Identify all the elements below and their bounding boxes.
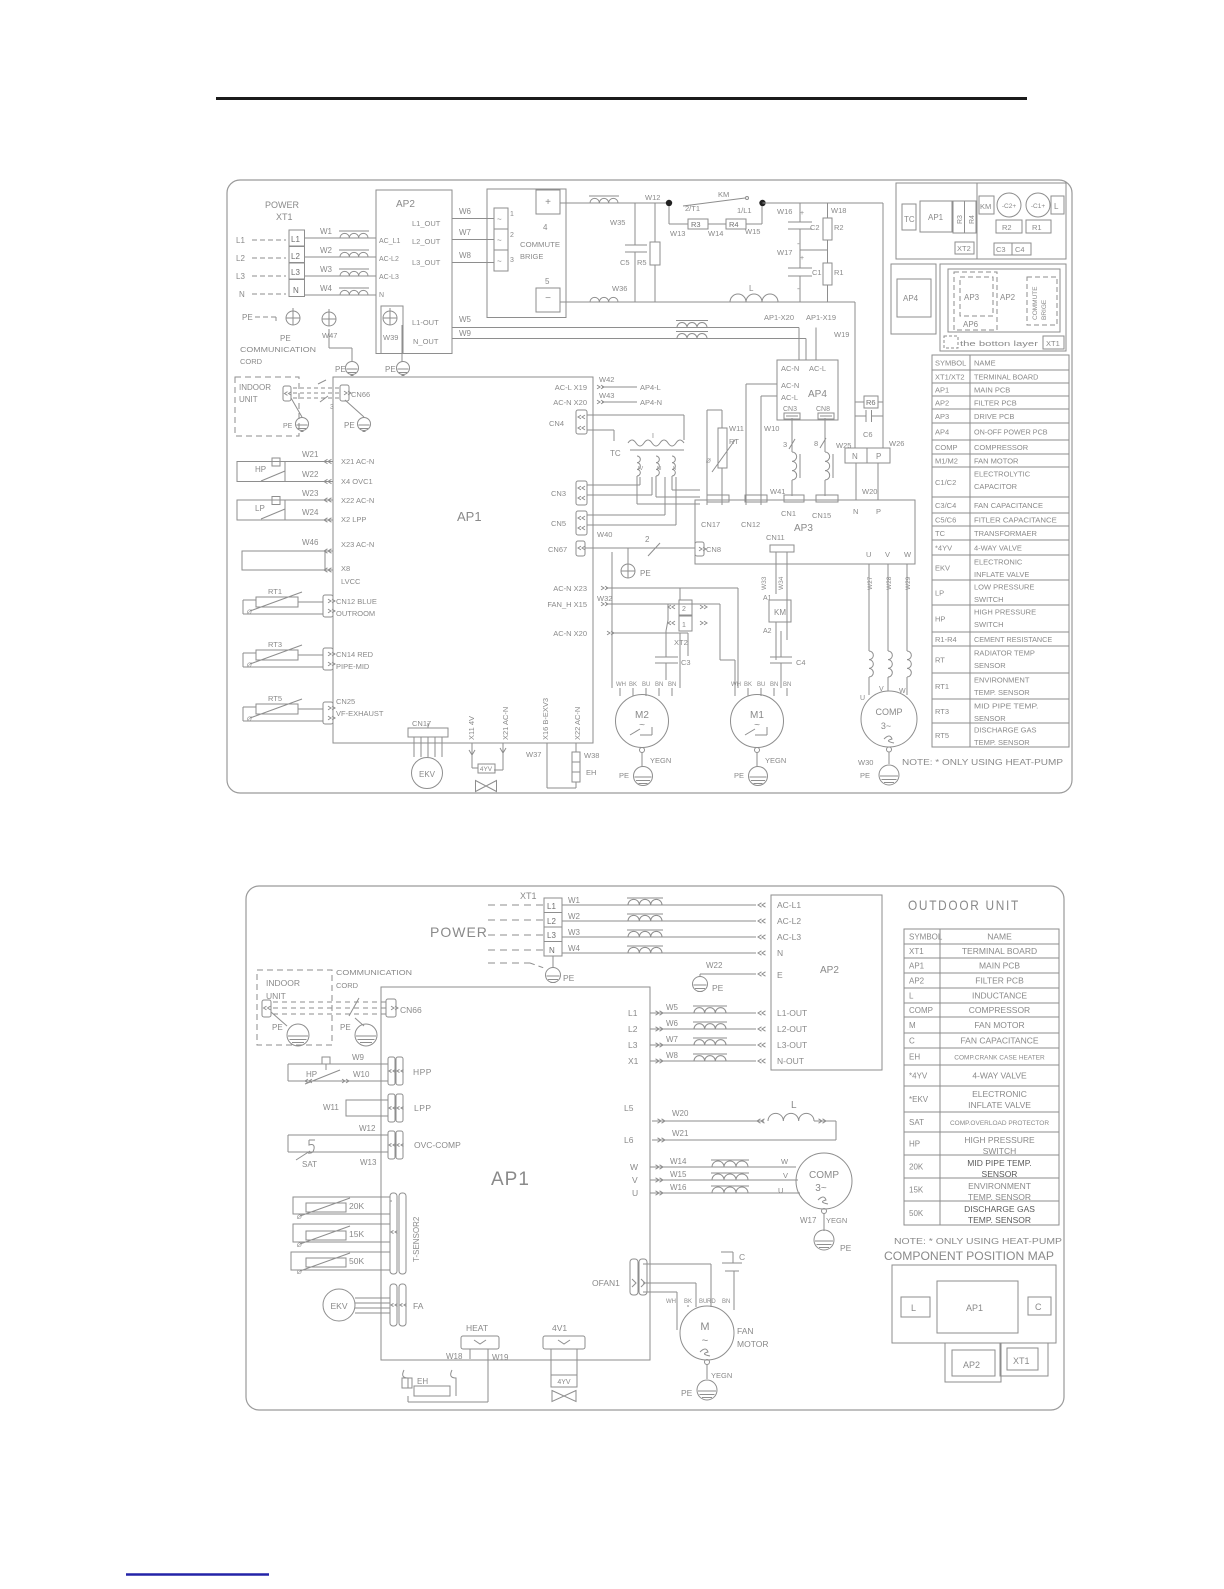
svg-text:AP2: AP2 bbox=[935, 399, 949, 408]
svg-text:L3: L3 bbox=[236, 272, 245, 281]
svg-text:RT1: RT1 bbox=[935, 682, 949, 691]
svg-text:AP1: AP1 bbox=[491, 1169, 530, 1190]
wire W30 / ground PE compressor bbox=[887, 747, 892, 752]
commute bridge assembly bbox=[487, 189, 566, 318]
svg-text:R3: R3 bbox=[691, 220, 701, 229]
svg-text:BU: BU bbox=[757, 682, 765, 688]
svg-text:W25: W25 bbox=[836, 441, 851, 450]
fan motor M2 bbox=[616, 695, 669, 748]
svg-text:C: C bbox=[1035, 1302, 1042, 1312]
svg-text:~: ~ bbox=[497, 236, 502, 245]
svg-text:COMMUTE: COMMUTE bbox=[520, 240, 560, 249]
svg-text:MAIN PCB: MAIN PCB bbox=[979, 961, 1020, 971]
svg-text:U: U bbox=[632, 1188, 638, 1198]
legend the bottom layer bbox=[944, 336, 958, 348]
svg-text:TC: TC bbox=[935, 529, 946, 538]
svg-text:W1: W1 bbox=[568, 896, 581, 905]
main PCB AP1 d2 bbox=[381, 987, 650, 1360]
svg-text:WH: WH bbox=[731, 682, 741, 688]
main PCB AP1 position bbox=[920, 201, 952, 232]
svg-text:W12: W12 bbox=[645, 193, 660, 202]
svg-text:AP1: AP1 bbox=[457, 509, 482, 524]
svg-text:SAT: SAT bbox=[302, 1160, 317, 1169]
svg-text:SYMBOL: SYMBOL bbox=[909, 933, 943, 942]
svg-text:PE: PE bbox=[712, 983, 724, 993]
svg-text:AC-L2: AC-L2 bbox=[379, 256, 399, 263]
svg-text:L1-OUT: L1-OUT bbox=[777, 1008, 807, 1018]
svg-text:W13: W13 bbox=[670, 229, 685, 238]
svg-text:R1: R1 bbox=[834, 268, 844, 277]
svg-text:~: ~ bbox=[702, 1335, 708, 1347]
svg-text:W40: W40 bbox=[597, 530, 612, 539]
svg-text:L: L bbox=[911, 1303, 916, 1313]
svg-text:AP2: AP2 bbox=[963, 1360, 980, 1370]
svg-text:R6: R6 bbox=[866, 398, 876, 407]
svg-text:XT1: XT1 bbox=[1013, 1356, 1030, 1366]
svg-text:XT1: XT1 bbox=[276, 212, 293, 222]
svg-text:CN5: CN5 bbox=[551, 519, 566, 528]
svg-text:R1-R4: R1-R4 bbox=[935, 635, 957, 644]
svg-text:X21 AC-N: X21 AC-N bbox=[501, 707, 510, 740]
connector CN25 bbox=[323, 702, 333, 724]
svg-text:COMP.CRANK CASE HEATER: COMP.CRANK CASE HEATER bbox=[954, 1055, 1045, 1062]
svg-text:W42: W42 bbox=[599, 375, 614, 384]
svg-text:W46: W46 bbox=[302, 538, 319, 547]
svg-text:CN1: CN1 bbox=[781, 509, 796, 518]
svg-text:R5: R5 bbox=[637, 258, 647, 267]
filter PCB AP2 d2 bbox=[771, 895, 882, 1070]
svg-text:OVC-COMP: OVC-COMP bbox=[414, 1140, 461, 1150]
svg-text:W4: W4 bbox=[568, 944, 581, 953]
connector CN12 bbox=[323, 595, 333, 617]
svg-text:KM: KM bbox=[980, 202, 991, 211]
svg-text:W27: W27 bbox=[867, 576, 874, 590]
svg-text:L1: L1 bbox=[547, 902, 556, 911]
svg-text:V: V bbox=[783, 1171, 788, 1180]
compressor COMP bbox=[861, 691, 917, 747]
svg-text:C5: C5 bbox=[620, 258, 630, 267]
svg-text:PE: PE bbox=[272, 1023, 283, 1032]
svg-text:ELECTROLYTIC: ELECTROLYTIC bbox=[974, 470, 1031, 479]
svg-text:FAN_H X15: FAN_H X15 bbox=[547, 600, 587, 609]
svg-text:W5: W5 bbox=[459, 315, 472, 324]
svg-text:PE: PE bbox=[335, 365, 346, 374]
power PCB AP4 position bbox=[891, 264, 936, 334]
connector HPP bbox=[388, 1057, 395, 1085]
connector CN1 on AP3 bbox=[784, 495, 804, 502]
connector on indoor unit bbox=[283, 386, 291, 401]
svg-text:FAN: FAN bbox=[737, 1326, 754, 1336]
svg-text:N: N bbox=[777, 948, 783, 958]
svg-text:C3: C3 bbox=[681, 658, 691, 667]
svg-text:W22: W22 bbox=[302, 470, 319, 479]
svg-text:W1: W1 bbox=[320, 227, 333, 236]
svg-text:L1_OUT: L1_OUT bbox=[412, 219, 441, 228]
svg-text:HP: HP bbox=[306, 1070, 317, 1079]
dashed power lines d2 bbox=[488, 904, 544, 906]
svg-text:U: U bbox=[866, 550, 871, 559]
ground PE indoor 1 bbox=[291, 398, 302, 417]
resistor R1 bbox=[827, 250, 829, 263]
svg-text:PE: PE bbox=[563, 973, 575, 983]
svg-text:COMP: COMP bbox=[935, 443, 958, 452]
ground PE M2 YEGN bbox=[640, 748, 645, 753]
svg-text:ON-OFF POWER PCB: ON-OFF POWER PCB bbox=[974, 428, 1048, 437]
svg-text:3: 3 bbox=[783, 440, 787, 449]
svg-text:~: ~ bbox=[497, 257, 502, 266]
svg-text:2: 2 bbox=[645, 535, 650, 544]
svg-text:CN66: CN66 bbox=[351, 390, 370, 399]
svg-text:CN12: CN12 bbox=[741, 520, 760, 529]
ground PE under AP2 bbox=[401, 325, 403, 362]
svg-text:50K: 50K bbox=[349, 1256, 364, 1266]
svg-text:CN11: CN11 bbox=[766, 533, 785, 542]
svg-text:W20: W20 bbox=[672, 1109, 689, 1118]
svg-text:AP1-X19: AP1-X19 bbox=[806, 313, 836, 322]
connector CN8 on AP3 left bbox=[695, 542, 704, 556]
svg-text:AC_L1: AC_L1 bbox=[379, 238, 401, 245]
svg-text:*EKV: *EKV bbox=[909, 1095, 929, 1104]
svg-text:W11: W11 bbox=[323, 1103, 339, 1112]
inductance L position bbox=[1051, 196, 1064, 214]
svg-text:TERMINAL BOARD: TERMINAL BOARD bbox=[974, 373, 1039, 382]
svg-text:SENSOR: SENSOR bbox=[974, 661, 1006, 670]
svg-text:M1/M2: M1/M2 bbox=[935, 457, 958, 466]
svg-text:C2: C2 bbox=[810, 223, 820, 232]
component position map d2 bbox=[892, 1265, 1056, 1343]
svg-text:+: + bbox=[800, 210, 804, 217]
connector OVC-COMP bbox=[388, 1131, 395, 1159]
sensor RT W11 bbox=[707, 409, 722, 411]
svg-text:AP2: AP2 bbox=[820, 965, 839, 976]
svg-text:FITLER CAPACITANCE: FITLER CAPACITANCE bbox=[974, 516, 1057, 525]
ground PE indoor 2 bbox=[345, 400, 364, 417]
svg-text:SENSOR: SENSOR bbox=[974, 714, 1006, 723]
lvcc loop box bbox=[242, 551, 325, 570]
svg-text:W: W bbox=[630, 1162, 638, 1172]
svg-text:HIGH PRESSURE: HIGH PRESSURE bbox=[964, 1135, 1035, 1145]
wire W9 from N_OUT bbox=[452, 338, 585, 340]
svg-text:HP: HP bbox=[255, 465, 266, 474]
svg-text:L1: L1 bbox=[291, 235, 300, 244]
svg-text:CORD: CORD bbox=[336, 981, 359, 990]
svg-text:IV: IV bbox=[638, 466, 644, 472]
svg-text:YEGN: YEGN bbox=[826, 1216, 847, 1225]
ground PE below XT1 bbox=[286, 311, 300, 325]
svg-text:CAPACITOR: CAPACITOR bbox=[974, 482, 1018, 491]
svg-text:AC-L3: AC-L3 bbox=[777, 932, 801, 942]
svg-text:L: L bbox=[749, 284, 754, 293]
svg-text:U: U bbox=[860, 695, 865, 702]
sensor 15K bbox=[293, 1224, 390, 1242]
svg-text:W28: W28 bbox=[886, 576, 893, 590]
svg-text:AP2: AP2 bbox=[1000, 293, 1016, 302]
svg-text:EH: EH bbox=[586, 768, 596, 777]
svg-text:L2: L2 bbox=[291, 252, 300, 261]
svg-text:PE: PE bbox=[681, 1388, 693, 1398]
svg-text:W43: W43 bbox=[599, 391, 614, 400]
svg-text:RT5: RT5 bbox=[935, 731, 949, 740]
svg-text:L2: L2 bbox=[547, 917, 556, 926]
svg-text:FAN MOTOR: FAN MOTOR bbox=[974, 1020, 1024, 1030]
svg-text:RT1: RT1 bbox=[268, 587, 282, 596]
svg-text:AP4-L: AP4-L bbox=[640, 383, 661, 392]
svg-text:XT2: XT2 bbox=[674, 638, 688, 647]
svg-text:X4 OVC1: X4 OVC1 bbox=[341, 477, 373, 486]
svg-text:PE: PE bbox=[734, 771, 744, 780]
symbol table diagram 1 bbox=[932, 355, 1069, 747]
svg-text:POWER: POWER bbox=[265, 200, 300, 210]
svg-text:MID PIPE TEMP.: MID PIPE TEMP. bbox=[967, 1158, 1031, 1168]
resistor R3 bbox=[668, 206, 670, 224]
svg-text:CN14 RED: CN14 RED bbox=[336, 650, 374, 659]
svg-text:R3: R3 bbox=[957, 215, 964, 224]
terminal XT1 position d2 bbox=[1000, 1343, 1048, 1376]
connector T-SENSOR2 bbox=[390, 1193, 397, 1274]
svg-text:TC: TC bbox=[904, 215, 915, 224]
connector CN66 bbox=[340, 385, 349, 401]
svg-text:AP3: AP3 bbox=[935, 412, 949, 421]
svg-text:COMMUNICATION: COMMUNICATION bbox=[336, 968, 412, 977]
svg-text:PE: PE bbox=[385, 365, 396, 374]
ground PE indoor d2 bbox=[271, 1012, 287, 1026]
svg-text:2: 2 bbox=[510, 232, 514, 239]
svg-text:YEGN: YEGN bbox=[650, 756, 671, 765]
svg-text:*4YV: *4YV bbox=[909, 1072, 928, 1081]
svg-text:C1: C1 bbox=[812, 268, 822, 277]
svg-text:4YV: 4YV bbox=[557, 1379, 571, 1386]
drive PCB AP3 bbox=[695, 500, 915, 564]
wire W17 ground PE YEGN d2 bbox=[822, 1209, 827, 1214]
svg-text:W33: W33 bbox=[761, 576, 768, 590]
svg-text:W30: W30 bbox=[858, 758, 873, 767]
svg-text:SWITCH: SWITCH bbox=[983, 1146, 1017, 1156]
svg-text:X8: X8 bbox=[341, 564, 350, 573]
svg-text:CN66: CN66 bbox=[400, 1005, 422, 1015]
svg-text:A1: A1 bbox=[763, 595, 772, 602]
svg-text:W9: W9 bbox=[459, 329, 472, 338]
svg-text:U: U bbox=[778, 1186, 783, 1195]
svg-text:AC-N: AC-N bbox=[781, 364, 799, 373]
svg-text:AP2: AP2 bbox=[909, 977, 925, 986]
svg-text:L1: L1 bbox=[236, 236, 245, 245]
svg-text:NAME: NAME bbox=[987, 932, 1012, 942]
svg-text:N: N bbox=[379, 292, 384, 299]
svg-text:Ø: Ø bbox=[246, 717, 252, 723]
svg-text:4V1: 4V1 bbox=[552, 1323, 567, 1333]
svg-text:N_OUT: N_OUT bbox=[413, 337, 439, 346]
indoor unit dashed box d2 bbox=[257, 970, 332, 1045]
svg-text:W32: W32 bbox=[597, 594, 612, 603]
svg-text:INFLATE VALVE: INFLATE VALVE bbox=[968, 1100, 1031, 1110]
filter PCB AP2 bbox=[376, 190, 452, 354]
svg-text:AP1: AP1 bbox=[909, 962, 925, 971]
svg-text:1: 1 bbox=[682, 622, 686, 629]
svg-text:NOTE: * ONLY USING HEAT-PUMP: NOTE: * ONLY USING HEAT-PUMP bbox=[894, 1236, 1062, 1246]
svg-text:L: L bbox=[791, 1100, 797, 1111]
svg-text:L2_OUT: L2_OUT bbox=[412, 237, 441, 246]
svg-text:L6: L6 bbox=[624, 1135, 634, 1145]
contactor coil KM A1 A2 bbox=[775, 552, 777, 594]
svg-text:LVCC: LVCC bbox=[341, 577, 361, 586]
svg-text:20K: 20K bbox=[349, 1201, 364, 1211]
svg-text:Ø: Ø bbox=[296, 1270, 302, 1276]
svg-text:AC-N: AC-N bbox=[781, 381, 799, 390]
svg-text:C4: C4 bbox=[796, 658, 806, 667]
svg-text:XT1: XT1 bbox=[1046, 339, 1060, 348]
svg-text:HP: HP bbox=[909, 1140, 920, 1149]
svg-text:III: III bbox=[657, 466, 662, 472]
svg-text:MAIN PCB: MAIN PCB bbox=[974, 386, 1010, 395]
svg-text:AC-L3: AC-L3 bbox=[379, 274, 399, 281]
svg-text:W12: W12 bbox=[359, 1124, 376, 1133]
electronic inflate valve EKV bbox=[412, 758, 443, 789]
wire W5 from L1-OUT bbox=[452, 327, 560, 329]
svg-text:AP4-N: AP4-N bbox=[640, 398, 662, 407]
svg-text:R2: R2 bbox=[834, 223, 844, 232]
heater EH d2 bbox=[403, 1370, 408, 1388]
svg-text:X2 LPP: X2 LPP bbox=[341, 515, 366, 524]
svg-text:CORD: CORD bbox=[240, 357, 263, 366]
svg-text:AP3: AP3 bbox=[794, 523, 813, 534]
svg-text:LOW PRESSURE: LOW PRESSURE bbox=[974, 583, 1034, 592]
svg-text:AP1: AP1 bbox=[928, 213, 944, 222]
svg-text:W41: W41 bbox=[770, 487, 785, 496]
transformer TC position bbox=[902, 204, 916, 230]
resistor R2 position bbox=[996, 220, 1022, 233]
svg-text:W8: W8 bbox=[459, 251, 472, 260]
svg-text:W14: W14 bbox=[708, 229, 723, 238]
svg-text:R4: R4 bbox=[969, 215, 976, 224]
symbol table diagram 2 bbox=[904, 929, 1059, 1225]
svg-text:W18: W18 bbox=[446, 1352, 463, 1361]
svg-text:R1: R1 bbox=[1032, 223, 1042, 232]
svg-text:CN3: CN3 bbox=[783, 406, 797, 413]
svg-text:BK: BK bbox=[684, 1299, 692, 1305]
svg-text:YEGN: YEGN bbox=[765, 756, 786, 765]
svg-text:RT: RT bbox=[935, 656, 945, 665]
svg-text:1: 1 bbox=[510, 211, 514, 218]
svg-text:R4: R4 bbox=[729, 220, 739, 229]
svg-text:INDOOR: INDOOR bbox=[239, 383, 271, 392]
svg-text:C3/C4: C3/C4 bbox=[935, 501, 956, 510]
svg-text:M: M bbox=[700, 1321, 709, 1333]
connector LPP bbox=[388, 1094, 395, 1122]
svg-text:POWER: POWER bbox=[430, 924, 488, 940]
capacitor C3 C4 position bbox=[994, 243, 1012, 255]
fan motor M1 bbox=[731, 695, 784, 748]
svg-text:EKV: EKV bbox=[935, 564, 950, 573]
svg-text:II: II bbox=[673, 466, 677, 472]
svg-text:W16: W16 bbox=[777, 207, 792, 216]
ground PE fan motor d2 bbox=[705, 1360, 710, 1365]
page top rule bbox=[216, 97, 1027, 100]
svg-text:50K: 50K bbox=[909, 1209, 924, 1218]
connector CN17 on AP3 bbox=[707, 495, 729, 502]
svg-text:XT1: XT1 bbox=[520, 891, 537, 901]
svg-text:BN: BN bbox=[783, 682, 791, 688]
svg-text:4YV: 4YV bbox=[480, 766, 493, 773]
svg-text:ELECTRONIC: ELECTRONIC bbox=[972, 1089, 1027, 1099]
svg-text:W20: W20 bbox=[862, 487, 877, 496]
svg-text:~: ~ bbox=[497, 215, 502, 224]
svg-text:AC-L: AC-L bbox=[781, 393, 798, 402]
svg-text:AP4: AP4 bbox=[935, 428, 949, 437]
wire to 4YV valve bbox=[471, 743, 473, 768]
svg-text:W19: W19 bbox=[834, 330, 849, 339]
resistor R3 R4 position bbox=[953, 201, 965, 233]
on-off power PCB AP4 bbox=[777, 360, 838, 420]
svg-text:W2: W2 bbox=[320, 246, 333, 255]
svg-text:W36: W36 bbox=[612, 284, 627, 293]
resistor R1 position bbox=[1026, 220, 1051, 233]
svg-text:AP3: AP3 bbox=[964, 293, 980, 302]
svg-text:INFLATE VALVE: INFLATE VALVE bbox=[974, 570, 1029, 579]
svg-text:C4: C4 bbox=[1015, 245, 1025, 254]
svg-text:L3: L3 bbox=[291, 268, 300, 277]
connector CN15 on AP3 bbox=[816, 495, 838, 502]
svg-text:NAME: NAME bbox=[974, 359, 996, 368]
svg-text:W11: W11 bbox=[729, 424, 744, 433]
svg-text:-C1+: -C1+ bbox=[1031, 203, 1045, 210]
svg-text:T-SENSOR2: T-SENSOR2 bbox=[412, 1216, 421, 1262]
svg-text:AP4: AP4 bbox=[903, 294, 919, 303]
svg-text:3: 3 bbox=[510, 257, 514, 264]
electronic inflate valve EKV d2 bbox=[323, 1289, 355, 1321]
svg-text:BN: BN bbox=[770, 682, 778, 688]
indoor unit dashed box bbox=[235, 377, 299, 436]
svg-text:-: - bbox=[797, 239, 800, 248]
svg-text:UNIT: UNIT bbox=[239, 395, 258, 404]
svg-text:PE: PE bbox=[860, 771, 870, 780]
svg-text:AP4: AP4 bbox=[808, 389, 827, 400]
svg-text:W35: W35 bbox=[610, 218, 625, 227]
svg-text:EKV: EKV bbox=[419, 770, 436, 779]
svg-text:+: + bbox=[545, 197, 551, 208]
wire top bus from bridge bbox=[560, 202, 669, 204]
ground PE mid bbox=[627, 548, 629, 562]
svg-text:W19: W19 bbox=[492, 1353, 509, 1362]
svg-text:HEAT: HEAT bbox=[466, 1323, 488, 1333]
svg-text:INDUCTANCE: INDUCTANCE bbox=[972, 991, 1027, 1001]
svg-text:RADIATOR TEMP: RADIATOR TEMP bbox=[974, 649, 1035, 658]
svg-text:the botton layer: the botton layer bbox=[960, 339, 1039, 348]
ground symbol W39 inside AP2 bbox=[381, 306, 403, 354]
svg-text:W23: W23 bbox=[302, 489, 319, 498]
resistor R6 bbox=[864, 396, 878, 408]
svg-text:L2-OUT: L2-OUT bbox=[777, 1024, 807, 1034]
svg-text:W7: W7 bbox=[666, 1035, 679, 1044]
svg-text:SENSOR: SENSOR bbox=[982, 1169, 1018, 1179]
svg-text:DISCHARGE GAS: DISCHARGE GAS bbox=[964, 1204, 1035, 1214]
wire dashed power feed bbox=[252, 239, 286, 241]
svg-text:OUTDOOR UNIT: OUTDOOR UNIT bbox=[908, 897, 1020, 913]
svg-text:X23 AC-N: X23 AC-N bbox=[341, 540, 374, 549]
svg-text:PE: PE bbox=[640, 569, 651, 578]
svg-text:W15: W15 bbox=[745, 227, 760, 236]
svg-text:+: + bbox=[800, 255, 804, 262]
main PCB AP1 bbox=[333, 377, 593, 743]
connector CN14 bbox=[323, 648, 333, 670]
svg-text:RT: RT bbox=[729, 437, 739, 446]
svg-text:CN12 BLUE: CN12 BLUE bbox=[336, 597, 377, 606]
svg-text:AP1: AP1 bbox=[966, 1303, 983, 1313]
svg-text:COMP.OVERLOAD PROTECTOR: COMP.OVERLOAD PROTECTOR bbox=[950, 1120, 1049, 1127]
svg-text:L3-OUT: L3-OUT bbox=[777, 1040, 807, 1050]
svg-text:C1/C2: C1/C2 bbox=[935, 478, 956, 487]
svg-text:CN67: CN67 bbox=[548, 545, 567, 554]
sensor 50K bbox=[291, 1252, 390, 1270]
